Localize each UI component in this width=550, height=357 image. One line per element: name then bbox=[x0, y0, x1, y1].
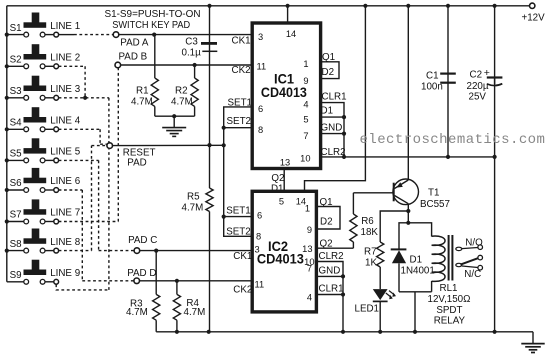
wire IC2 pin14 to +12V riser bbox=[305, 6, 366, 192]
svg-text:3: 3 bbox=[258, 32, 263, 42]
svg-text:+: + bbox=[484, 67, 490, 79]
junction rail/LED1 bbox=[378, 330, 382, 334]
svg-text:1: 1 bbox=[303, 59, 308, 69]
svg-text:SET1: SET1 bbox=[228, 97, 253, 108]
svg-text:D1: D1 bbox=[321, 106, 334, 117]
svg-text:S8: S8 bbox=[10, 239, 23, 250]
svg-text:D1: D1 bbox=[410, 255, 423, 266]
junction bus/pin7 bbox=[342, 132, 346, 136]
junction collector/R7 branch bbox=[406, 209, 410, 213]
svg-text:12V,150Ω: 12V,150Ω bbox=[428, 294, 471, 305]
svg-text:S3: S3 bbox=[10, 86, 23, 97]
svg-text:0.1µ: 0.1µ bbox=[182, 47, 202, 58]
junction trunk/IC2 pin6 bbox=[222, 215, 226, 219]
wire R6 top to T1 base bbox=[353, 192, 393, 194]
junction common/S4 bbox=[5, 127, 9, 131]
junction rail/IC2 bus bbox=[341, 330, 345, 334]
wire SET trunk to IC2 pin6/pin8 bbox=[224, 145, 253, 236]
svg-text:Q2: Q2 bbox=[320, 238, 333, 249]
svg-text:CD4013: CD4013 bbox=[261, 85, 307, 100]
svg-text:CLR1: CLR1 bbox=[322, 92, 347, 103]
svg-text:LINE 6: LINE 6 bbox=[50, 176, 81, 187]
wire coil to block bottom bbox=[431, 281, 433, 292]
IC1 pin numbers bbox=[257, 29, 311, 168]
wire relay block bottom bbox=[399, 291, 432, 293]
ground (below R1/R2) bbox=[162, 116, 186, 136]
node PAD D bbox=[134, 278, 140, 284]
svg-text:4: 4 bbox=[303, 100, 308, 110]
svg-text:100n: 100n bbox=[421, 81, 443, 92]
svg-text:4.7M: 4.7M bbox=[171, 97, 193, 108]
switch S8 push-to-on bbox=[7, 229, 81, 254]
wire IC2 pin13 Q2 to R6 bbox=[316, 247, 353, 249]
switch S2 push-to-on bbox=[7, 44, 80, 69]
resistor R3 4.7M bbox=[155, 251, 157, 295]
wire IC1 pin5 D1 bbox=[321, 116, 344, 118]
wire S2 down to S3 row (dashed) bbox=[59, 65, 86, 67]
svg-text:14: 14 bbox=[286, 29, 296, 39]
svg-text:10: 10 bbox=[300, 154, 310, 164]
wire +12V rail (top) bbox=[7, 5, 530, 7]
svg-text:1N4001: 1N4001 bbox=[401, 265, 435, 276]
svg-text:LINE 3: LINE 3 bbox=[50, 84, 81, 95]
wire S4 to RESET pad (dashed) bbox=[59, 128, 101, 130]
svg-text:1K: 1K bbox=[365, 257, 377, 268]
svg-text:CLR1: CLR1 bbox=[319, 284, 344, 295]
wire IC2 pin7 GND bbox=[316, 275, 343, 277]
svg-text:Q1: Q1 bbox=[320, 197, 333, 208]
wire S5 to PAD C (dashed) bbox=[59, 159, 99, 161]
LED LED1 bbox=[355, 289, 397, 314]
svg-text:13: 13 bbox=[302, 244, 312, 254]
svg-text:LINE 5: LINE 5 bbox=[50, 147, 81, 158]
ground (bottom right) bbox=[521, 332, 544, 353]
wire R1/R2 bottoms bbox=[155, 115, 195, 117]
capacitor C2 220u 25V electrolytic bbox=[467, 67, 503, 102]
wire relay block top bbox=[399, 223, 432, 250]
relay core bbox=[448, 235, 450, 281]
junction bus/pin5 bbox=[342, 115, 346, 119]
relay contact N/O bbox=[456, 238, 483, 251]
svg-text:S6: S6 bbox=[10, 178, 23, 189]
wire R7 to LED1 bbox=[379, 267, 381, 289]
svg-text:1: 1 bbox=[305, 204, 310, 214]
junction collector/relay top bbox=[406, 221, 410, 225]
junction CLR2/C1 bbox=[446, 155, 450, 159]
svg-text:CLR2: CLR2 bbox=[321, 147, 346, 158]
label RL1 relay bbox=[428, 283, 471, 327]
svg-text:S9: S9 bbox=[10, 270, 22, 281]
switch S1 push-to-on bbox=[7, 13, 80, 37]
wire S1 to PAD A (dashed) bbox=[59, 34, 74, 36]
wire PAD C to IC2 pin3 CK1 bbox=[140, 250, 253, 252]
svg-text:R6: R6 bbox=[361, 216, 374, 227]
wire +12V to C3 bbox=[209, 6, 211, 52]
wire IC2 Q1 to D2 loop bbox=[316, 207, 340, 230]
wire C1 to ground net bbox=[447, 83, 449, 157]
svg-text:PAD C: PAD C bbox=[128, 235, 157, 246]
svg-text:PAD B: PAD B bbox=[119, 52, 148, 63]
svg-text:CK2: CK2 bbox=[232, 65, 251, 76]
switch S7 push-to-on bbox=[7, 199, 80, 224]
wire IC1 Q1 to D2 loop bbox=[321, 62, 339, 79]
wire IC2 pin4 CLR1 bbox=[316, 294, 343, 296]
svg-text:S5: S5 bbox=[10, 149, 23, 160]
wire LED1 to ground rail bbox=[379, 301, 381, 331]
svg-text:7: 7 bbox=[307, 264, 312, 274]
svg-text:6: 6 bbox=[257, 211, 262, 221]
switch S6 push-to-on bbox=[7, 168, 81, 193]
svg-text:CLR2: CLR2 bbox=[319, 251, 344, 262]
svg-text:GND: GND bbox=[319, 266, 341, 277]
svg-text:S4: S4 bbox=[10, 118, 23, 129]
junction S2/S3 (dashed) bbox=[83, 96, 87, 100]
capacitor C1 100n bbox=[421, 71, 456, 93]
wire T1 collector down bbox=[407, 204, 409, 223]
wire IC1 pin14 to +12V bbox=[287, 6, 289, 23]
wire S9 to RESET pad riser (dashed) bbox=[56, 284, 109, 290]
wire +12V to C2 bbox=[494, 6, 496, 84]
wire PAD B to IC1 pin11 CK2 bbox=[121, 64, 253, 66]
junction R2 top bbox=[193, 63, 197, 67]
svg-text:D2: D2 bbox=[322, 67, 335, 78]
svg-text:R2: R2 bbox=[175, 86, 188, 97]
resistor R7 1K bbox=[377, 242, 384, 267]
svg-text:4.7M: 4.7M bbox=[126, 307, 148, 318]
svg-text:CK2: CK2 bbox=[233, 284, 252, 295]
junction RESET/C3/R5 bbox=[207, 143, 211, 147]
wire PAD A to IC1 pin3 CK1 bbox=[119, 34, 252, 36]
svg-text:LINE 8: LINE 8 bbox=[50, 237, 81, 248]
svg-text:8: 8 bbox=[256, 231, 261, 241]
wire S8 to RESET pad (dashed) bbox=[59, 250, 92, 252]
switch S5 push-to-on bbox=[7, 138, 81, 163]
svg-text:25V: 25V bbox=[469, 91, 487, 102]
svg-text:SET2: SET2 bbox=[226, 227, 251, 238]
IC1 CD4013 dual flip-flop bbox=[252, 23, 320, 169]
svg-text:LINE 2: LINE 2 bbox=[50, 53, 80, 64]
svg-text:LINE 4: LINE 4 bbox=[50, 116, 81, 127]
junction rail/C1 bbox=[446, 4, 450, 8]
svg-text:S1: S1 bbox=[10, 23, 22, 34]
svg-text:11: 11 bbox=[257, 62, 267, 72]
wire C2 to ground rail bbox=[494, 78, 496, 332]
wire collector branch to R7 bbox=[380, 211, 408, 242]
wire IC1 pin7 GND bbox=[321, 133, 344, 135]
svg-text:4.7M: 4.7M bbox=[184, 307, 206, 318]
junction ground stem bbox=[172, 114, 176, 118]
svg-text:T1: T1 bbox=[428, 187, 439, 198]
wire RESET pad line bbox=[113, 144, 224, 146]
svg-text:LINE 9: LINE 9 bbox=[50, 268, 80, 279]
svg-text:4: 4 bbox=[307, 293, 312, 303]
wire SET trunk to IC1 pin6/pin8 bbox=[224, 107, 253, 145]
svg-text:Q2: Q2 bbox=[271, 173, 284, 184]
junction R3 top bbox=[154, 249, 158, 253]
wire S7 to PAD B (dashed) bbox=[59, 221, 119, 223]
svg-text:11: 11 bbox=[255, 280, 265, 290]
junction rail/T1 emitter bbox=[406, 4, 410, 8]
node RESET PAD bbox=[107, 143, 113, 149]
svg-text:SET1: SET1 bbox=[226, 205, 251, 216]
resistor R4 4.7M bbox=[176, 281, 178, 295]
svg-text:5: 5 bbox=[279, 196, 284, 206]
switch S9 push-to-on bbox=[7, 260, 80, 284]
junction rail/IC2 pin14 riser bbox=[363, 4, 367, 8]
junction rail/C2 bbox=[493, 4, 497, 8]
svg-text:N/C: N/C bbox=[464, 269, 481, 280]
junction trunk/IC1 pin8 bbox=[222, 126, 226, 130]
resistor R6 18K bbox=[352, 193, 354, 214]
svg-text:9: 9 bbox=[307, 225, 312, 235]
svg-text:RELAY: RELAY bbox=[434, 316, 466, 327]
wire R5 to ground rail bbox=[209, 212, 211, 332]
junction common/S1 bbox=[5, 33, 9, 37]
junction common/S2 bbox=[5, 64, 9, 68]
junction common/S7 bbox=[5, 219, 9, 223]
svg-text:18K: 18K bbox=[361, 227, 379, 238]
resistor R5 4.7M bbox=[209, 145, 211, 188]
svg-text:PAD D: PAD D bbox=[127, 268, 156, 279]
svg-text:Q1: Q1 bbox=[322, 52, 335, 63]
svg-text:LINE 7: LINE 7 bbox=[50, 208, 80, 219]
junction common/S6 bbox=[5, 188, 9, 192]
svg-text:8: 8 bbox=[258, 125, 263, 135]
switch S4 push-to-on bbox=[7, 107, 81, 132]
svg-text:3: 3 bbox=[255, 245, 260, 255]
svg-text:SET2: SET2 bbox=[227, 116, 252, 127]
node PAD A bbox=[113, 32, 119, 38]
switch S3 push-to-on bbox=[7, 76, 81, 101]
relay RL1 coil bbox=[432, 236, 445, 281]
svg-text:LINE 1: LINE 1 bbox=[50, 21, 80, 32]
svg-text:S2: S2 bbox=[10, 55, 22, 66]
svg-text:+12V: +12V bbox=[522, 12, 546, 23]
junction rail/R5 line bbox=[207, 330, 211, 334]
svg-text:GND: GND bbox=[321, 123, 343, 134]
svg-text:SWITCH KEY PAD: SWITCH KEY PAD bbox=[112, 20, 190, 31]
svg-text:BC557: BC557 bbox=[420, 199, 450, 210]
svg-text:4.7M: 4.7M bbox=[131, 97, 153, 108]
junction bus2/pin4 bbox=[341, 292, 345, 296]
svg-text:6: 6 bbox=[258, 104, 263, 114]
junction common/S5 bbox=[5, 158, 9, 162]
IC2 pin numbers bbox=[255, 196, 315, 302]
transistor T1 BC557 PNP bbox=[393, 179, 450, 210]
junction CLR2/bus bbox=[342, 155, 346, 159]
junction rail/IC1 pin14 bbox=[286, 4, 290, 8]
wire switch common (left vertical) bbox=[6, 6, 8, 282]
junction R4 top bbox=[175, 279, 179, 283]
svg-text:SPDT: SPDT bbox=[436, 305, 462, 316]
wire block bottom to ground rail bbox=[414, 292, 416, 332]
svg-text:PAD A: PAD A bbox=[120, 37, 149, 48]
wire T1 emitter to +12V bbox=[407, 6, 409, 180]
svg-text:CK1: CK1 bbox=[233, 251, 252, 262]
node PAD C bbox=[134, 248, 140, 254]
junction common/S3 bbox=[5, 96, 9, 100]
wire D1 to block bottom bbox=[398, 263, 400, 292]
svg-text:C1: C1 bbox=[426, 71, 439, 82]
svg-text:S7: S7 bbox=[10, 210, 22, 221]
svg-text:S1-S9=PUSH-TO-ON: S1-S9=PUSH-TO-ON bbox=[105, 9, 201, 20]
junction common/S8 bbox=[5, 249, 9, 253]
junction rail/C3 bbox=[207, 4, 211, 8]
junction bus2/pin7 bbox=[341, 274, 345, 278]
wire IC2 pin10 CLR2 bus bbox=[316, 262, 343, 332]
junction R1 top bbox=[152, 33, 156, 37]
svg-text:D2: D2 bbox=[320, 217, 333, 228]
svg-text:PAD: PAD bbox=[127, 157, 146, 168]
relay contact N/C bbox=[462, 265, 483, 280]
svg-text:R1: R1 bbox=[136, 86, 149, 97]
wire ground rail (bottom) bbox=[156, 331, 533, 333]
svg-text:C2: C2 bbox=[470, 70, 483, 81]
junction CLR2/C2 line bbox=[493, 155, 497, 159]
wire +12V to C1 bbox=[447, 6, 449, 83]
svg-text:220µ: 220µ bbox=[467, 81, 489, 92]
diode D1 1N4001 bbox=[391, 249, 435, 276]
wire PAD D to IC2 pin11 CK2 bbox=[140, 280, 253, 282]
svg-text:9: 9 bbox=[303, 76, 308, 86]
wire C3 to RESET line bbox=[209, 51, 211, 145]
relay contact arm (common) bbox=[456, 255, 483, 266]
wire IC1 pin13 Q2 to IC2 pin5 D1 bbox=[283, 169, 285, 192]
svg-text:electroschematics.com: electroschematics.com bbox=[360, 132, 546, 148]
svg-text:CK1: CK1 bbox=[232, 36, 251, 47]
svg-text:LED1: LED1 bbox=[355, 303, 380, 314]
junction rail/relay branch bbox=[413, 330, 417, 334]
svg-text:N/O: N/O bbox=[465, 238, 483, 249]
svg-text:R5: R5 bbox=[187, 192, 200, 203]
capacitor C3 0.1u bbox=[182, 36, 218, 58]
wire IC1 pin10 CLR2 to supply caps (ground net) bbox=[321, 156, 495, 158]
svg-text:4.7M: 4.7M bbox=[182, 203, 204, 214]
wire S3 to RESET pad riser (dashed) bbox=[59, 97, 109, 99]
svg-text:C3: C3 bbox=[185, 36, 198, 47]
junction rail/C2 line bbox=[493, 330, 497, 334]
junction RESET/SET trunk bbox=[222, 143, 226, 147]
node PAD B bbox=[115, 62, 121, 68]
node +12V terminal bbox=[530, 3, 535, 8]
IC2 CD4013 dual flip-flop bbox=[252, 191, 316, 312]
svg-text:7: 7 bbox=[303, 131, 308, 141]
resistor R2 4.7M bbox=[194, 65, 196, 78]
svg-text:CD4013: CD4013 bbox=[257, 251, 304, 266]
junction rail/R4 bbox=[175, 330, 179, 334]
svg-text:R7: R7 bbox=[364, 246, 377, 257]
resistor R1 4.7M bbox=[154, 35, 156, 78]
svg-text:13: 13 bbox=[280, 157, 290, 167]
wire S6 to PAD D (dashed) bbox=[59, 189, 83, 191]
svg-text:RL1: RL1 bbox=[440, 283, 458, 294]
svg-text:5: 5 bbox=[303, 114, 308, 124]
wire IC1 pin4 CLR1 bus bbox=[321, 103, 344, 158]
